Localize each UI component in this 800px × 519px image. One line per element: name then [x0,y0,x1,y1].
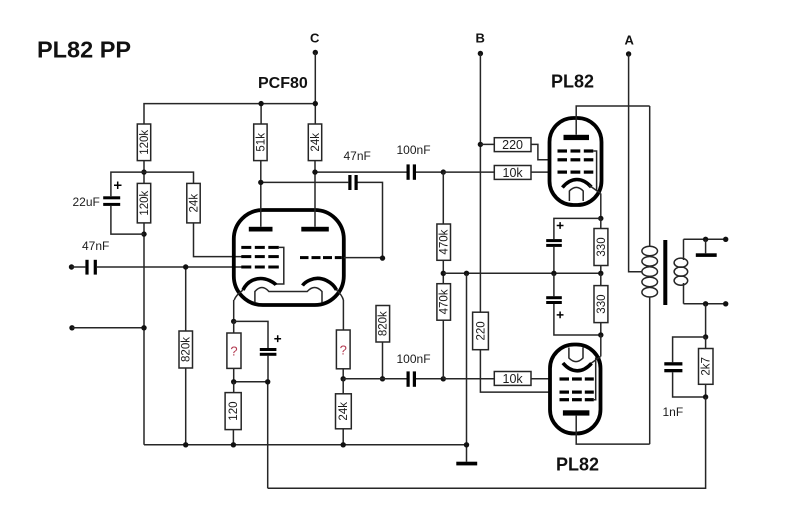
U1 pentode grid g3 dashes [241,246,278,249]
resistor 820k left grid leak [185,267,187,445]
wire PL82 top anode to transformer [576,106,650,135]
U1 left cathode dome [243,279,276,291]
resistor 470k lower [437,284,451,321]
PL82 top grid g2 dashes [558,158,594,161]
wire 120k lower bottom [143,223,145,445]
svg-text:C: C [310,31,320,46]
svg-text:PL82: PL82 [551,72,594,92]
svg-text:A: A [625,33,635,48]
capacitor 47nF input wires [72,266,242,268]
svg-text:B: B [476,31,485,46]
PL82 top g3 internal tie [593,151,596,191]
resistor 10k top [443,171,550,173]
wire B line [479,54,481,313]
capacitor 22uF loop wires [111,172,144,234]
capacitor cathode bypass left [260,348,277,351]
svg-text:47nF: 47nF [82,239,109,253]
svg-text:220: 220 [502,138,523,152]
PL82 top cathode [562,180,591,188]
U1 left cathode lead [234,290,243,300]
resistor 220 top [480,144,550,159]
svg-text:PCF80: PCF80 [258,75,308,92]
capacitor bypass top PL82 [546,239,562,242]
resistor 51k [254,124,267,161]
wire output to RC [705,304,707,337]
PL82 bottom cathode [563,363,592,371]
wire triode grid [344,257,383,259]
plus sign left bypass [274,335,281,342]
svg-text:24k: 24k [310,133,322,152]
capacitor 22uF plates [103,196,120,199]
plus sign cap top [557,222,564,229]
resistor 330 bottom [600,273,602,335]
transformer T1 primary [649,106,651,247]
resistor 820k right [376,306,390,343]
wire secondary bottom out [684,303,726,305]
resistor 120k upper [137,124,150,161]
wire secondary top out [684,238,726,240]
wire ground vertical [466,273,468,461]
svg-text:24k: 24k [188,194,200,213]
PL82 bottom g2 dashes [560,391,594,394]
PL82 bottom g3 dashes [560,398,594,401]
resistor 2k7 [705,337,707,397]
plus sign cap bottom [557,312,564,319]
U1 g3 internal tie to cathode [276,247,284,284]
svg-text:330: 330 [596,237,608,256]
U1 pentode grid g1 dashes [241,266,278,269]
svg-text:220: 220 [475,321,487,340]
wire PL82 top cathode down [600,193,602,218]
U1 left cathode network wires [234,321,268,488]
wire A line to center tap [629,54,643,272]
resistor 24k left [144,172,242,257]
svg-text:PL82 PP: PL82 PP [37,37,131,63]
svg-text:820k: 820k [378,311,390,336]
input terminal 1 [69,264,74,269]
svg-text:100nF: 100nF [397,143,431,157]
PL82 bottom g3 internal tie [594,358,596,400]
chassis bar [705,239,707,253]
svg-text:47nF: 47nF [344,149,371,163]
svg-text:?: ? [230,344,237,359]
svg-text:PL82: PL82 [556,455,599,475]
resistor 220 vertical [473,312,489,350]
plus sign 22uF [114,182,122,190]
PL82 top grid g1 dashes [558,171,594,174]
U1 heater filament [255,288,322,303]
U1 right anode [301,227,329,232]
svg-text:330: 330 [596,295,608,314]
tube PL82 bottom envelope [550,345,601,434]
wire PL82 bottom cathode up [600,335,602,357]
wire feedback bottom [268,397,706,488]
capacitor bypass bottom PL82 [554,273,601,335]
svg-text:100nF: 100nF [397,352,431,366]
wire PL82 bottom anode to transformer [576,416,650,445]
capacitor 1nF loop [673,337,706,397]
ground [456,462,477,466]
PL82 top anode [564,135,590,140]
wire input2 to chain [72,327,144,329]
resistor 330 top [600,218,602,273]
U1 right cathode dome [303,278,337,290]
PL82 bottom heater [569,348,583,362]
resistor 470k upper [442,172,444,284]
svg-text:10k: 10k [503,166,524,180]
resistor 10k bottom [443,378,550,380]
svg-text:120k: 120k [139,130,151,155]
svg-text:24k: 24k [338,402,350,421]
svg-text:120k: 120k [139,190,151,215]
U1 pentode grid g2 dashes [241,255,278,258]
wire bottom ground rail [144,444,467,446]
svg-text:10k: 10k [503,372,524,386]
tube PL82 top envelope [550,118,602,205]
PL82 bottom g1 dashes [560,377,594,380]
resistor 24k right anode [308,124,321,161]
svg-text:820k: 820k [181,337,193,362]
PL82 top heater [569,187,583,201]
PL82 top grid g3 dashes [558,149,594,152]
transformer T1 core [663,240,667,305]
U1 left anode [249,227,273,232]
resistor 120k lower [137,183,150,223]
transformer T1 secondary [674,258,688,285]
node top rail junctions [258,101,263,106]
resistor ? left cathode [227,333,241,368]
wire mid rail [443,272,601,274]
svg-text:1nF: 1nF [663,405,684,419]
svg-text:470k: 470k [439,289,451,314]
svg-text:470k: 470k [439,229,451,254]
capacitor 47nF input plates [85,260,88,275]
wire cathode rail top [554,218,601,273]
input terminal 2 [69,325,74,330]
resistor ? right cathode [336,330,350,369]
tube PCF80 U1 envelope [234,210,344,305]
resistor 24k bottom cathode [342,379,344,445]
svg-text:22uF: 22uF [73,195,100,209]
svg-text:120: 120 [228,402,240,421]
resistor 120 [232,382,234,445]
svg-text:2k7: 2k7 [701,357,713,376]
wire 120k to junction [143,161,145,184]
svg-text:?: ? [340,343,347,358]
U1 right cathode lead [337,290,344,300]
svg-text:51k: 51k [255,133,267,152]
U1 triode grid dashes [300,256,342,259]
PL82 bottom anode [563,410,590,415]
wire C drop [314,53,316,125]
wire top rail [144,104,315,124]
